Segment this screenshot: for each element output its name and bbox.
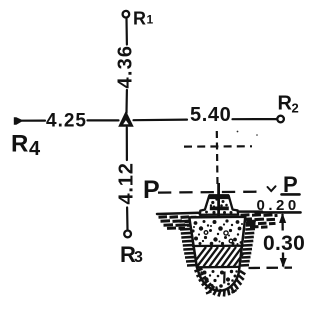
wire: right arm segment inner xyxy=(134,118,188,121)
ground line right xyxy=(238,210,262,213)
svg-text:5.40: 5.40 xyxy=(190,104,231,126)
reference point circle R1 xyxy=(123,11,130,18)
wire: line from station down to R3 (lower segment) xyxy=(126,208,129,230)
speck dot under 5.40 xyxy=(237,131,258,136)
svg-text:2: 2 xyxy=(292,101,299,116)
label R2 xyxy=(278,93,299,116)
pillar center mark vertical xyxy=(217,183,220,228)
section line P-P dashed xyxy=(158,191,257,194)
bowl small center mark xyxy=(223,272,226,284)
ground hatch right xyxy=(241,215,278,228)
centerline vertical dashed above monument xyxy=(216,131,219,186)
distance label 5.40 xyxy=(190,104,231,126)
wire: right arm segment outer xyxy=(233,118,278,120)
svg-text:1: 1 xyxy=(147,13,154,27)
pillar stipple xyxy=(205,198,232,214)
hatched band top line xyxy=(192,245,244,248)
wire: left arm segment inner xyxy=(88,119,119,121)
earth hatch around bowl xyxy=(195,269,246,297)
underline below 0.20 xyxy=(256,211,301,214)
buried block top concrete stipple xyxy=(191,219,243,245)
wire: left arm segment outer xyxy=(15,119,45,121)
svg-text:4.12: 4.12 xyxy=(116,162,138,204)
svg-text:4: 4 xyxy=(29,138,41,160)
earth hatch around buried block (right side) xyxy=(241,221,256,266)
dimension 0.30 top arrow xyxy=(279,213,286,231)
small v mark near right P xyxy=(268,186,276,191)
wire: line from station up to R1 (lower segment) xyxy=(125,90,128,113)
distance label 4.36 (rotated) xyxy=(115,45,137,89)
survey station triangle xyxy=(118,111,134,127)
concrete aggregate rings xyxy=(204,231,233,243)
earth hatch bottom horizontal marks xyxy=(206,290,237,294)
pillar top thick bar xyxy=(209,194,229,199)
ground hatch left xyxy=(159,217,197,229)
bottom dashed reference line xyxy=(249,266,293,269)
svg-text:P: P xyxy=(143,176,160,204)
hatched band diagonal hatching xyxy=(195,247,244,267)
underline below right P xyxy=(282,193,300,196)
svg-text:R: R xyxy=(278,93,293,115)
svg-text:4.25: 4.25 xyxy=(46,111,87,132)
distance label 4.12 (rotated) xyxy=(116,162,138,204)
hatched band bottom line xyxy=(197,266,241,269)
label P right xyxy=(283,172,298,197)
earth hatch around buried block (left side) xyxy=(180,221,197,266)
wire: left arm tick (arrow end) xyxy=(14,117,22,125)
monument pillar (above ground) xyxy=(200,196,238,215)
dimension text 0.30 xyxy=(263,232,305,255)
reference point circle R2 xyxy=(277,116,284,123)
svg-text:0.30: 0.30 xyxy=(263,232,305,255)
dimension 0.30 bottom arrow xyxy=(280,253,287,268)
label R3 xyxy=(120,242,143,267)
reference point circle R3 xyxy=(124,231,131,238)
bowl stipple xyxy=(200,270,237,289)
svg-text:R: R xyxy=(133,8,146,28)
wire: line from station down to R3 (upper segment) xyxy=(126,128,128,161)
centerline horizontal dashed xyxy=(184,145,252,148)
svg-text:3: 3 xyxy=(134,249,143,266)
label R1 xyxy=(133,8,154,28)
distance label 4.25 xyxy=(46,111,87,132)
ground line left xyxy=(157,213,200,214)
svg-text:4.36: 4.36 xyxy=(115,45,137,89)
wire: line from station up to R1 (upper segment) xyxy=(125,19,128,45)
label P left xyxy=(143,176,160,204)
pillar cross bar xyxy=(210,206,229,210)
buried block outline xyxy=(189,217,245,291)
dimension text 0.20 xyxy=(257,197,300,214)
svg-text:R: R xyxy=(11,131,28,158)
label R4 xyxy=(11,131,41,161)
